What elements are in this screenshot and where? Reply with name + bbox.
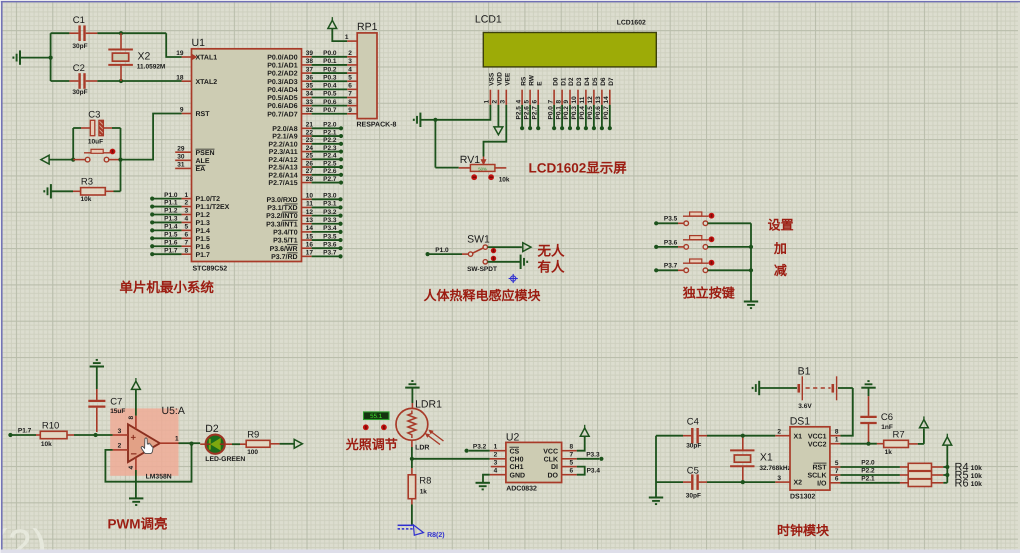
svg-text:P0.7/AD7: P0.7/AD7 — [267, 110, 297, 118]
svg-text:ALE: ALE — [196, 158, 210, 165]
svg-text:9: 9 — [563, 100, 570, 104]
push button P3.5 — [678, 222, 684, 224]
svg-text:P1.6: P1.6 — [164, 239, 178, 246]
wire battery to VCC1 — [840, 388, 852, 436]
svg-text:3: 3 — [494, 459, 498, 466]
node P3.2 — [465, 449, 469, 453]
ldr light arrows — [430, 431, 444, 442]
svg-text:13: 13 — [595, 96, 602, 104]
svg-text:4: 4 — [494, 468, 498, 475]
svg-text:30: 30 — [177, 154, 185, 161]
svg-text:XTAL2: XTAL2 — [196, 79, 218, 86]
svg-text:13: 13 — [306, 217, 314, 224]
svg-text:8: 8 — [835, 429, 839, 436]
svg-text:P0.4: P0.4 — [579, 106, 586, 120]
svg-text:C4: C4 — [687, 417, 699, 428]
svg-text:9: 9 — [348, 107, 352, 114]
junction keys 1 — [749, 245, 753, 249]
lcd LCD1 screen — [483, 33, 656, 67]
node P1.4 — [150, 228, 154, 232]
junction C7 — [94, 433, 98, 437]
svg-text:U1: U1 — [192, 37, 206, 49]
node P2.5 — [302, 166, 312, 168]
node P1.5 — [150, 236, 154, 240]
svg-text:15uF: 15uF — [110, 408, 125, 415]
svg-text:D7: D7 — [608, 77, 615, 86]
svg-text:37: 37 — [306, 66, 314, 73]
svg-text:P0.6: P0.6 — [595, 106, 602, 120]
wire SW1 throw down — [488, 261, 521, 263]
svg-text:2: 2 — [494, 452, 498, 459]
light adjust dots — [363, 424, 369, 430]
ground U2 — [476, 482, 490, 484]
node P2.0 wire — [840, 466, 900, 468]
node P2.1 — [302, 135, 312, 137]
junction LCD ground — [433, 118, 437, 122]
node P0.2 LCD wire — [569, 105, 571, 128]
svg-text:(2): (2) — [0, 521, 47, 553]
svg-text:P0.2: P0.2 — [563, 106, 570, 120]
svg-text:P3.7: P3.7 — [323, 250, 337, 257]
node P0.5 LCD wire — [593, 105, 595, 128]
svg-text:10k: 10k — [41, 441, 52, 448]
svg-text:7: 7 — [570, 452, 574, 459]
node P2.1 wire — [840, 482, 900, 484]
crystal X1 — [742, 436, 744, 451]
node P3.7 — [302, 255, 312, 257]
node P3.6 key — [654, 245, 658, 249]
node P3.4 — [302, 231, 312, 233]
svg-text:P1.7: P1.7 — [18, 428, 32, 435]
pin CH0 U2 — [490, 458, 506, 460]
svg-text:C6: C6 — [881, 412, 893, 423]
node P2.5 LCD wire — [521, 105, 523, 128]
svg-text:P1.4: P1.4 — [196, 228, 211, 235]
svg-text:5: 5 — [523, 100, 530, 104]
node P3.6 — [302, 247, 312, 249]
node P0.6 LCD wire — [601, 105, 603, 128]
junction R5 — [945, 473, 949, 477]
svg-text:17: 17 — [306, 250, 314, 257]
svg-text:10uF: 10uF — [88, 139, 103, 146]
svg-text:CH0: CH0 — [510, 456, 524, 463]
wire X1 row — [707, 435, 775, 437]
svg-text:P2.6/A14: P2.6/A14 — [268, 171, 297, 179]
svg-text:P3.3: P3.3 — [323, 217, 337, 224]
svg-text:设置: 设置 — [768, 218, 794, 233]
svg-text:50%: 50% — [478, 166, 487, 171]
pin XTAL1 U1 — [182, 56, 192, 58]
svg-text:7: 7 — [348, 91, 352, 98]
svg-text:8: 8 — [128, 416, 135, 420]
power arrow PWM out — [294, 439, 302, 448]
svg-text:P3.5/T1: P3.5/T1 — [273, 237, 298, 245]
node P2.2 wire — [840, 474, 900, 476]
svg-text:14: 14 — [306, 225, 314, 232]
node P2.6 LCD wire — [529, 105, 531, 128]
svg-text:12: 12 — [587, 96, 594, 104]
svg-text:P3.3/INT1: P3.3/INT1 — [266, 220, 298, 228]
svg-text:P3.4/T0: P3.4/T0 — [273, 229, 298, 237]
svg-text:C3: C3 — [88, 110, 100, 121]
svg-text:P2.2: P2.2 — [861, 468, 875, 475]
pin 3 op-amp — [113, 434, 128, 436]
svg-text:P2.5: P2.5 — [323, 160, 337, 167]
node P0.3 wire U1 to RP1 — [302, 80, 312, 82]
svg-text:SCLK: SCLK — [807, 473, 826, 480]
svg-text:P2.1: P2.1 — [323, 129, 337, 136]
svg-text:P0.3: P0.3 — [571, 106, 578, 120]
svg-text:SW1: SW1 — [467, 234, 490, 246]
power arrow op-amp — [132, 381, 141, 389]
svg-text:P0.5/AD5: P0.5/AD5 — [267, 94, 297, 102]
svg-text:P1.0: P1.0 — [435, 247, 449, 254]
node P2.7 — [302, 182, 312, 184]
svg-text:1: 1 — [175, 436, 179, 443]
svg-text:P2.6: P2.6 — [323, 168, 337, 175]
svg-text:P3.6/WR: P3.6/WR — [270, 245, 298, 253]
svg-text:11: 11 — [579, 96, 586, 103]
svg-text:P3.5: P3.5 — [664, 216, 678, 223]
pin DO U2 — [562, 474, 577, 476]
svg-text:P0.0/AD0: P0.0/AD0 — [267, 53, 297, 61]
svg-text:LCD1602显示屏: LCD1602显示屏 — [529, 161, 628, 176]
svg-text:P0.0: P0.0 — [323, 50, 337, 57]
pin VCC2 DS1 — [830, 443, 841, 445]
svg-text:30pF: 30pF — [686, 443, 701, 450]
svg-text:36: 36 — [306, 74, 314, 81]
switch SW1 — [462, 253, 468, 255]
mcu U1 body — [192, 49, 302, 262]
svg-text:2: 2 — [118, 443, 122, 450]
svg-text:22: 22 — [306, 129, 314, 136]
pin SCLK DS1 — [830, 474, 841, 476]
node P1.0 — [150, 197, 154, 201]
svg-text:VDD: VDD — [497, 72, 504, 86]
power arrow pullups — [943, 437, 952, 445]
svg-text:P2.7/A15: P2.7/A15 — [268, 179, 297, 187]
power arrow reset — [41, 155, 49, 164]
rtc DS1 body — [790, 427, 830, 490]
pin XTAL1 marker — [192, 54, 197, 60]
svg-text:10k: 10k — [971, 473, 983, 480]
node P2.4 — [302, 158, 312, 160]
svg-text:35: 35 — [306, 83, 314, 90]
canvas border frame — [0, 550, 1020, 553]
svg-text:I/O: I/O — [817, 479, 827, 487]
svg-text:RP1: RP1 — [357, 21, 378, 33]
node P1.6 — [150, 244, 154, 248]
svg-text:38: 38 — [306, 58, 314, 65]
resistor R9 — [225, 443, 232, 445]
svg-text:C1: C1 — [73, 15, 85, 26]
node P3.4 tie DI-DO — [577, 467, 585, 475]
svg-text:CS: CS — [510, 448, 520, 455]
svg-text:11.0592M: 11.0592M — [137, 63, 166, 70]
svg-text:6: 6 — [531, 100, 538, 104]
svg-text:CLK: CLK — [544, 456, 558, 463]
svg-text:P3.4: P3.4 — [323, 225, 337, 232]
svg-text:C7: C7 — [110, 396, 122, 407]
svg-text:15: 15 — [306, 233, 314, 240]
svg-text:PWM调亮: PWM调亮 — [108, 517, 168, 532]
svg-text:32.768kHz: 32.768kHz — [759, 465, 791, 472]
respack RP1 body — [357, 33, 377, 119]
svg-text:3.6V: 3.6V — [798, 403, 812, 410]
svg-text:25: 25 — [306, 153, 314, 160]
svg-text:5: 5 — [570, 459, 574, 466]
pot RV1 — [434, 120, 436, 168]
node P0.5 wire U1 to RP1 — [302, 97, 312, 99]
svg-text:8: 8 — [348, 99, 352, 106]
junction R4 — [945, 465, 949, 469]
pin 8 op-amp — [135, 416, 137, 429]
svg-text:P2.2/A10: P2.2/A10 — [268, 140, 297, 148]
svg-text:CH1: CH1 — [510, 464, 524, 471]
wire LDR bottom — [411, 440, 413, 447]
wire X2 row — [707, 481, 775, 483]
svg-text:P1.0: P1.0 — [164, 192, 178, 199]
svg-text:4: 4 — [348, 66, 352, 73]
svg-text:LDR1: LDR1 — [415, 399, 442, 411]
junction C6 — [866, 442, 870, 446]
push button P3.6 — [678, 246, 684, 248]
wire left vertical C1-C2 — [50, 33, 52, 81]
svg-text:P0.3/AD3: P0.3/AD3 — [267, 78, 297, 86]
power arrow R7 — [923, 429, 925, 444]
svg-text:P3.6: P3.6 — [323, 241, 337, 248]
svg-text:P0.7: P0.7 — [323, 107, 337, 114]
svg-text:P0.7: P0.7 — [603, 106, 610, 120]
svg-text:10: 10 — [306, 193, 314, 200]
svg-text:DS1: DS1 — [790, 416, 811, 428]
svg-text:P3.2/INT0: P3.2/INT0 — [266, 212, 298, 220]
wire VSS to ground — [435, 105, 490, 120]
svg-text:时钟模块: 时钟模块 — [777, 523, 830, 538]
svg-text:P3.6: P3.6 — [664, 239, 678, 246]
svg-text:3: 3 — [777, 475, 781, 482]
node P2.2 — [302, 143, 312, 145]
power arrow U2 — [577, 436, 585, 451]
capacitor C7 — [96, 389, 98, 400]
ground top C6 — [861, 387, 875, 389]
svg-text:23: 23 — [306, 137, 314, 144]
ground for crystal caps — [20, 57, 51, 59]
svg-text:P2.3: P2.3 — [323, 145, 337, 152]
power arrow RP1 — [328, 20, 337, 28]
wire keys common — [750, 223, 752, 301]
ground LCD VSS — [420, 119, 435, 121]
svg-text:无人: 无人 — [537, 244, 566, 259]
svg-text:光照调节: 光照调节 — [345, 437, 398, 452]
svg-text:7: 7 — [185, 239, 189, 246]
svg-text:R6: R6 — [955, 478, 969, 490]
svg-text:5: 5 — [185, 224, 189, 231]
svg-text:10k: 10k — [499, 177, 510, 184]
svg-text:减: 减 — [774, 263, 787, 278]
svg-text:1: 1 — [835, 437, 839, 444]
svg-text:DI: DI — [551, 464, 558, 471]
svg-text:X1: X1 — [794, 433, 803, 440]
svg-text:P3.5: P3.5 — [323, 233, 337, 240]
svg-text:11: 11 — [306, 201, 313, 208]
svg-text:D0: D0 — [552, 77, 559, 86]
svg-text:R8: R8 — [419, 476, 431, 487]
svg-text:1k: 1k — [420, 489, 428, 496]
ground somebody — [520, 255, 522, 269]
svg-text:P3.3: P3.3 — [586, 452, 600, 459]
pin CS U2 — [490, 450, 506, 452]
wire VEE to RV1 wiper — [484, 105, 507, 157]
node P2.0 — [302, 127, 312, 129]
capacitor C3 — [73, 127, 81, 129]
node P3.2 — [302, 215, 312, 217]
svg-text:P1.1/T2EX: P1.1/T2EX — [196, 203, 230, 211]
svg-text:D4: D4 — [584, 77, 591, 86]
svg-text:26: 26 — [306, 160, 314, 167]
svg-text:P2.4/A12: P2.4/A12 — [268, 156, 297, 164]
svg-text:B1: B1 — [798, 366, 811, 378]
pin VCC1 DS1 — [830, 435, 841, 437]
svg-text:7: 7 — [547, 100, 554, 104]
node P3.5 key — [654, 221, 658, 225]
node P0.4 LCD wire — [585, 105, 587, 128]
pin ALE U1 — [175, 159, 191, 161]
svg-text:1: 1 — [345, 34, 349, 41]
node P0.0 LCD wire — [553, 105, 555, 128]
svg-text:RST: RST — [196, 111, 211, 118]
wire crystal caps left — [655, 436, 657, 498]
svg-text:P1.4: P1.4 — [164, 224, 178, 231]
resistor R10 — [36, 434, 40, 436]
svg-text:加: 加 — [773, 241, 787, 256]
svg-text:29: 29 — [177, 145, 185, 152]
pin 1 op-amp output — [160, 442, 179, 444]
wire op-amp output — [179, 442, 192, 444]
svg-text:P0.4: P0.4 — [323, 83, 337, 90]
node P0.7 wire U1 to RP1 — [302, 113, 312, 115]
svg-text:7: 7 — [835, 468, 839, 475]
pin EA U1 — [175, 167, 191, 169]
svg-text:4: 4 — [185, 216, 189, 223]
svg-text:8: 8 — [185, 247, 189, 254]
svg-text:28: 28 — [306, 176, 314, 183]
svg-text:P0.6: P0.6 — [323, 99, 337, 106]
svg-text:R3: R3 — [81, 177, 93, 188]
svg-text:1nF: 1nF — [881, 424, 893, 431]
svg-text:P2.1: P2.1 — [861, 475, 875, 482]
cursor hand — [141, 438, 153, 454]
svg-text:P3.1: P3.1 — [323, 201, 337, 208]
node P0.1 LCD wire — [561, 105, 563, 128]
wire to RST pin — [121, 114, 182, 160]
svg-text:+: + — [131, 432, 137, 443]
svg-text:1k: 1k — [885, 449, 893, 456]
node P0.1 wire U1 to RP1 — [302, 64, 312, 66]
svg-text:P1.2: P1.2 — [196, 212, 211, 219]
svg-text:P1.7: P1.7 — [164, 247, 178, 254]
svg-text:P2.2: P2.2 — [323, 137, 337, 144]
pin X2 DS1 — [775, 481, 790, 483]
capacitor C2 — [51, 80, 70, 82]
svg-text:D2: D2 — [568, 77, 575, 86]
svg-text:P3.0: P3.0 — [323, 193, 337, 200]
capacitor C6 — [868, 396, 870, 416]
svg-text:P3.4: P3.4 — [587, 467, 601, 474]
ground top LDR — [405, 387, 419, 389]
svg-text:P3.7/RD: P3.7/RD — [271, 253, 297, 261]
svg-text:2: 2 — [777, 429, 781, 436]
battery B1 — [759, 387, 797, 389]
ground op-amp — [135, 470, 137, 498]
svg-text:D2: D2 — [205, 423, 219, 435]
node P0.2 wire U1 to RP1 — [302, 72, 312, 74]
svg-text:VEE: VEE — [505, 72, 512, 86]
svg-text:3: 3 — [348, 58, 352, 65]
node P2.6 — [302, 174, 312, 176]
led D2 — [200, 443, 207, 445]
svg-text:P0.5: P0.5 — [587, 106, 594, 120]
wire XTAL1 net — [166, 33, 181, 57]
wire C3 left leg — [72, 128, 74, 160]
svg-text:U5:A: U5:A — [162, 405, 185, 417]
node P0.7 LCD wire — [609, 105, 611, 128]
svg-text:6: 6 — [348, 83, 352, 90]
svg-text:10k: 10k — [971, 481, 983, 488]
ground top C7 — [90, 366, 104, 368]
resistor R8 — [411, 459, 413, 468]
svg-text:10k: 10k — [81, 196, 92, 203]
svg-text:3: 3 — [185, 208, 189, 215]
pin CLK U2 — [562, 458, 577, 460]
node P0.3 LCD wire — [577, 105, 579, 128]
node P1.1 — [150, 204, 154, 208]
wire C3 right leg — [120, 128, 122, 160]
svg-text:21: 21 — [306, 122, 314, 129]
svg-text:6: 6 — [185, 232, 189, 239]
svg-text:单片机最小系统: 单片机最小系统 — [119, 280, 214, 295]
svg-text:RESPACK-8: RESPACK-8 — [357, 122, 397, 129]
resistor R3 — [51, 190, 73, 192]
svg-text:P2.0/A8: P2.0/A8 — [272, 125, 297, 133]
svg-text:P3.1/TXD: P3.1/TXD — [267, 204, 297, 212]
push button P3.7 — [678, 269, 684, 271]
pin X1 DS1 — [775, 435, 790, 437]
svg-text:RV1: RV1 — [460, 154, 480, 166]
svg-text:39: 39 — [306, 50, 314, 57]
node P2.3 — [302, 151, 312, 153]
switch SW1 indicator dots — [491, 248, 496, 253]
pin 4 op-amp — [135, 458, 137, 471]
svg-text:VCC1: VCC1 — [808, 433, 827, 440]
svg-text:10k: 10k — [971, 465, 983, 472]
ldr LDR1 — [411, 403, 413, 408]
svg-text:P3.2: P3.2 — [323, 209, 337, 216]
op-amp U5:A selection highlight — [110, 408, 178, 475]
node P0.6 wire U1 to RP1 — [302, 105, 312, 107]
svg-text:P0.3: P0.3 — [323, 74, 337, 81]
svg-text:D3: D3 — [576, 77, 583, 86]
svg-text:6: 6 — [835, 476, 839, 483]
svg-text:P0.1/AD1: P0.1/AD1 — [267, 62, 297, 70]
node P3.0 — [302, 198, 312, 200]
svg-text:R8(2): R8(2) — [427, 531, 445, 539]
svg-text:LDR: LDR — [415, 445, 429, 452]
svg-text:24: 24 — [306, 145, 314, 152]
svg-text:P1.3: P1.3 — [196, 220, 211, 227]
svg-text:2: 2 — [348, 50, 352, 57]
svg-text:3: 3 — [118, 428, 122, 435]
